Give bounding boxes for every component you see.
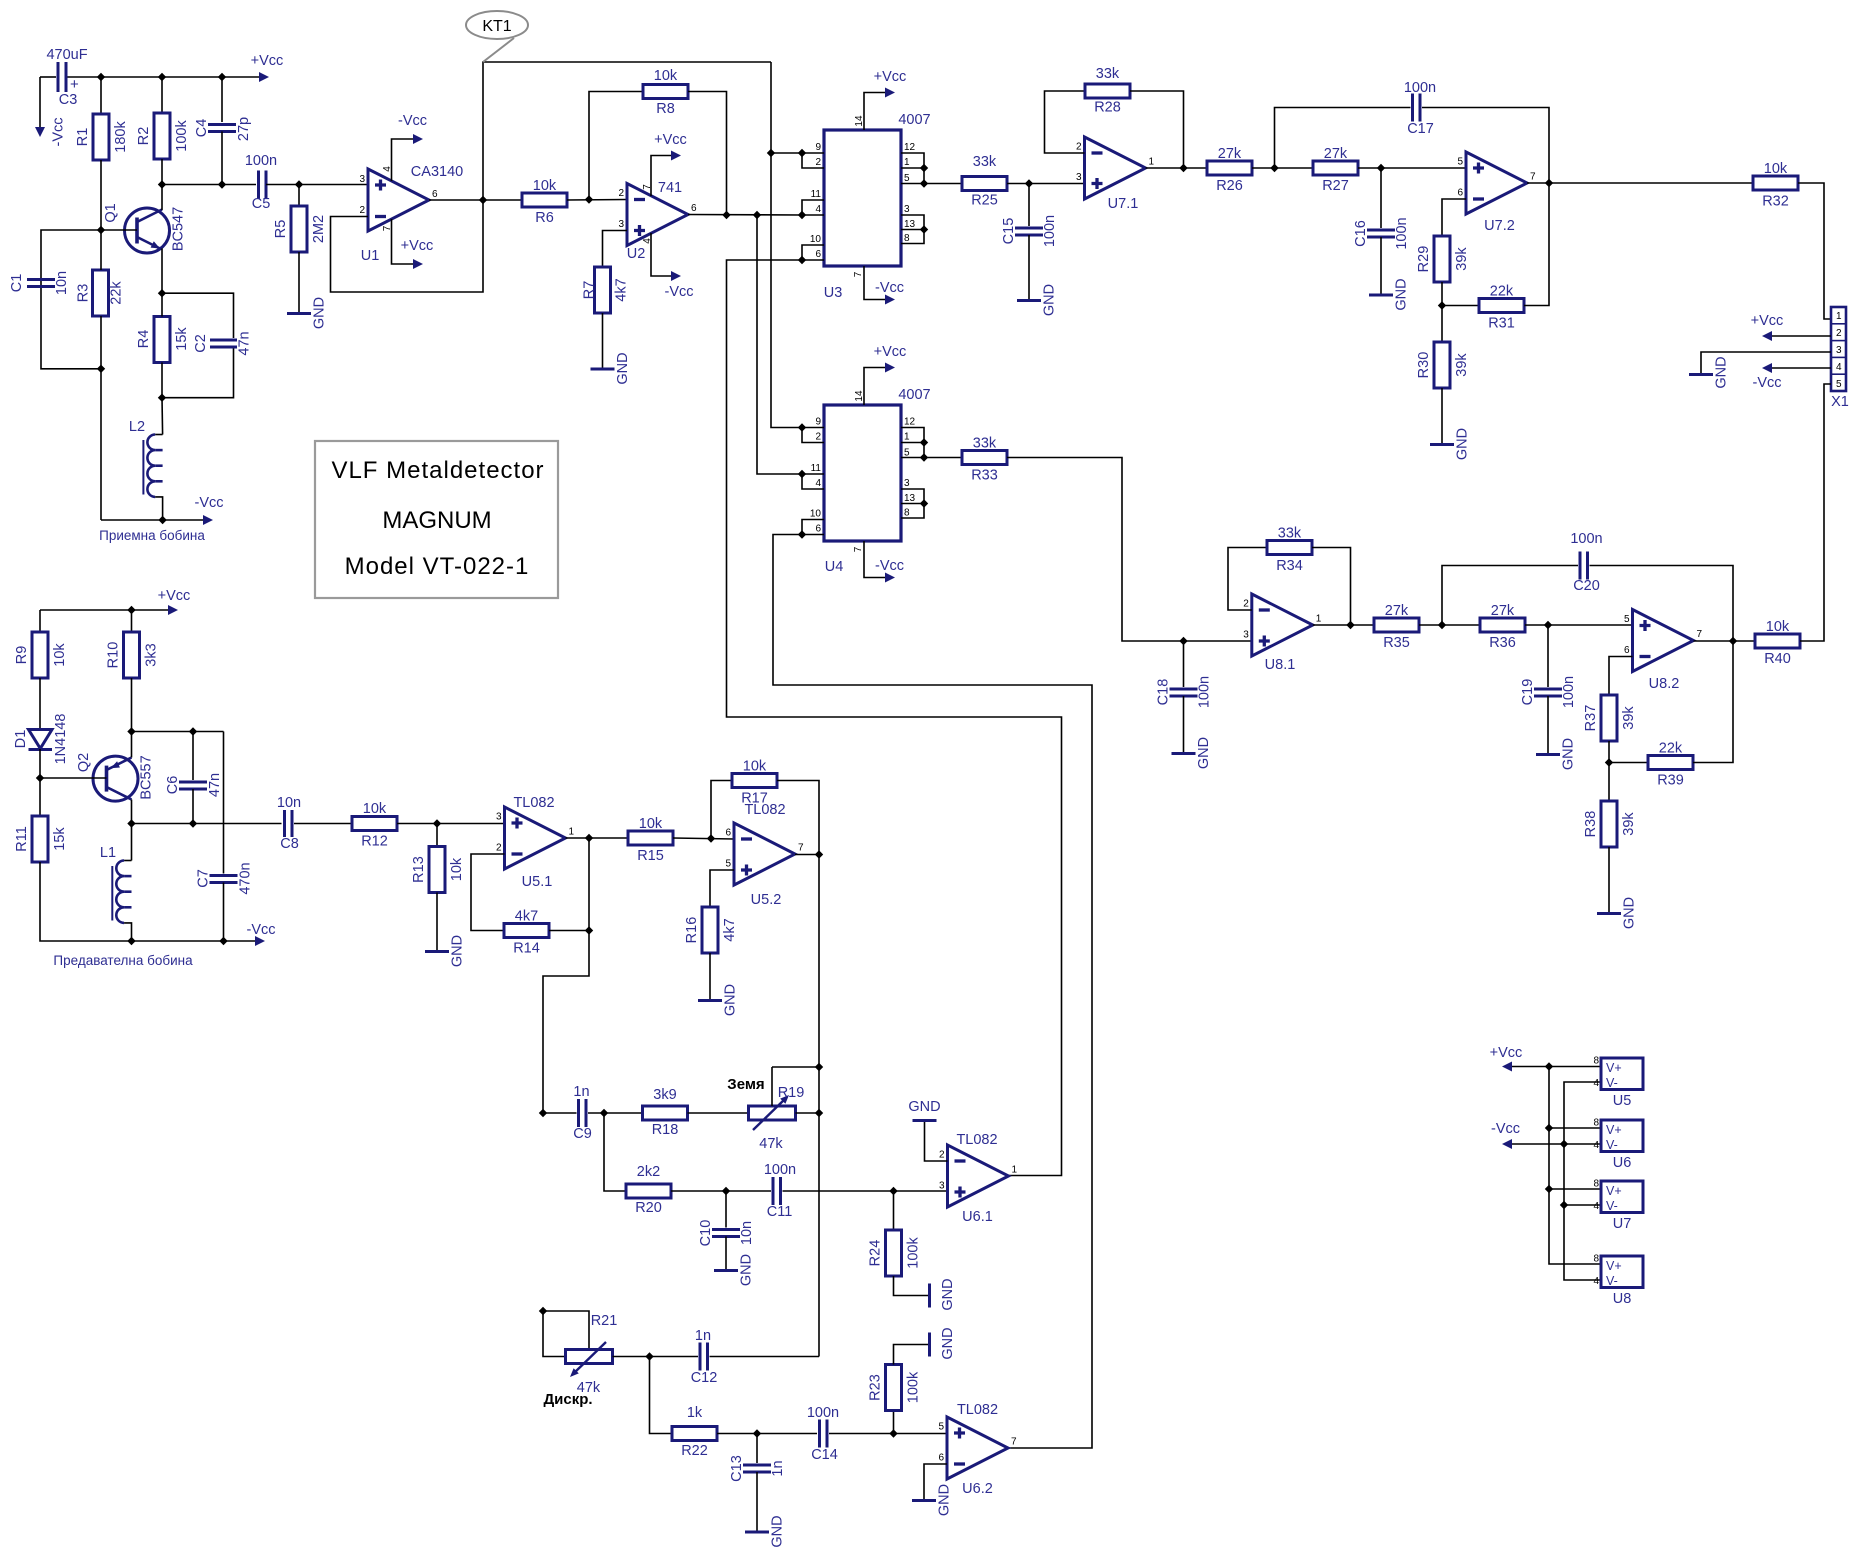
wire [864, 368, 885, 406]
wire U4 pin6 long route to U6.2 output [773, 535, 1092, 1449]
junction C9 right [600, 1109, 608, 1117]
svg-text:5: 5 [938, 1422, 944, 1433]
svg-text:741: 741 [658, 180, 682, 196]
wire [162, 347, 234, 398]
svg-text:2: 2 [939, 1150, 945, 1161]
wire [1590, 566, 1734, 642]
svg-text:1: 1 [1149, 157, 1155, 168]
svg-text:Приемна бобина: Приемна бобина [99, 528, 205, 543]
wire [100, 369, 102, 520]
junction base [97, 226, 105, 234]
svg-text:Предавателна бобина: Предавателна бобина [53, 953, 193, 968]
X1 pin2 +Vcc [1751, 313, 1831, 341]
resistor R25 [962, 154, 1007, 209]
svg-text:4: 4 [1593, 1276, 1599, 1287]
-Vcc arrow [203, 515, 213, 525]
wire [436, 893, 438, 952]
svg-text:10: 10 [810, 509, 822, 520]
junction [920, 225, 928, 233]
junction [218, 73, 226, 81]
junction [1545, 1062, 1553, 1070]
wire [1547, 625, 1549, 687]
svg-text:GND: GND [1196, 737, 1212, 769]
svg-text:R19: R19 [778, 1085, 805, 1101]
svg-text:1n: 1n [770, 1460, 786, 1476]
svg-text:5: 5 [1457, 157, 1463, 168]
wire Q1 emitter down [161, 249, 163, 294]
wire [901, 215, 924, 244]
capacitor C1 [9, 271, 70, 295]
svg-text:GND: GND [908, 1099, 940, 1115]
svg-text:U6.1: U6.1 [962, 1209, 993, 1225]
wire [1564, 1204, 1601, 1206]
wire [40, 777, 107, 779]
resistor R15 [628, 816, 673, 864]
wire [1442, 305, 1479, 307]
wire [901, 503, 924, 505]
wire [40, 862, 132, 941]
resistor R2 [136, 113, 190, 159]
junction [127, 937, 135, 945]
capacitor C13 [729, 1434, 786, 1533]
capacitor C7 [196, 732, 254, 942]
svg-text:R23: R23 [868, 1374, 884, 1401]
resistor R12 [352, 801, 397, 850]
svg-text:11: 11 [811, 463, 822, 474]
resistor R10 [106, 610, 160, 732]
wire C8 to R12 [294, 823, 352, 825]
svg-text:4: 4 [815, 204, 821, 215]
svg-text:4k7: 4k7 [515, 909, 538, 925]
svg-text:4: 4 [815, 478, 821, 489]
junction C19 [1544, 621, 1552, 629]
wire L2 column top [161, 398, 164, 435]
wire [924, 1464, 947, 1501]
svg-text:470n: 470n [238, 862, 254, 894]
junction [920, 453, 928, 461]
wire U2 pin4 -Vcc [651, 233, 671, 276]
svg-text:R16: R16 [684, 917, 700, 944]
svg-text:GND: GND [1455, 428, 1471, 460]
resistor R16 [684, 870, 738, 1001]
junction [1545, 1185, 1553, 1193]
wire R22 to C14 [717, 1433, 817, 1435]
wire R4 top/bottom [161, 293, 163, 316]
resistor R14 feedback [471, 854, 589, 957]
svg-text:+Vcc: +Vcc [158, 588, 191, 604]
resistor R28 feedback [1045, 66, 1184, 168]
wire [131, 678, 133, 732]
wire +Vcc power rail [1549, 1067, 1601, 1265]
svg-text:100n: 100n [1561, 676, 1577, 708]
ground R30 [1430, 428, 1471, 460]
svg-text:100n: 100n [1404, 80, 1436, 96]
svg-text:R14: R14 [513, 941, 540, 957]
svg-text:R36: R36 [1489, 635, 1516, 651]
svg-text:100n: 100n [1042, 215, 1058, 247]
wire top +Vcc rail [40, 76, 56, 78]
svg-text:U7.1: U7.1 [1108, 196, 1139, 212]
wire U4 pin5 to R33 [924, 457, 962, 459]
wire [39, 678, 41, 729]
wire [155, 434, 162, 436]
wire [1228, 548, 1267, 611]
svg-text:6: 6 [1457, 188, 1463, 199]
wire [1028, 184, 1030, 227]
resistor R4 [136, 317, 190, 363]
capacitor C15 [1001, 184, 1058, 301]
svg-text:3k3: 3k3 [144, 643, 160, 666]
wire [864, 93, 885, 131]
svg-text:1: 1 [1316, 614, 1322, 625]
svg-text:R35: R35 [1383, 635, 1410, 651]
svg-text:12: 12 [904, 417, 916, 428]
capacitor C3 [46, 47, 87, 108]
wire [893, 1191, 895, 1230]
wire [1442, 199, 1466, 236]
svg-text:R37: R37 [1583, 705, 1599, 732]
svg-text:6: 6 [815, 249, 821, 260]
wire [1380, 237, 1382, 295]
ground R13 [425, 935, 466, 967]
wire R35-R36 [1419, 624, 1480, 626]
wire [1693, 641, 1733, 763]
svg-text:2: 2 [1243, 599, 1249, 610]
svg-text:33k: 33k [1278, 526, 1302, 542]
junction C17 branch [1270, 164, 1278, 172]
svg-text:V-: V- [1606, 1274, 1618, 1288]
wire [298, 252, 300, 314]
U3 pins 10/6 bracket [798, 234, 824, 264]
wire [709, 953, 711, 1001]
U4 pins 10/6 bracket [798, 509, 824, 539]
power block U8 [1593, 1254, 1643, 1308]
U3 pins 12/1/5 bracket [901, 142, 928, 188]
svg-text:R8: R8 [656, 101, 675, 117]
wire R6 to U2 pin2 [567, 199, 627, 202]
svg-text:2: 2 [1836, 328, 1842, 339]
svg-text:2: 2 [618, 188, 624, 199]
svg-text:2: 2 [815, 157, 821, 168]
ground R16 [698, 984, 739, 1016]
junction [798, 149, 806, 157]
ground C19 [1536, 738, 1577, 770]
svg-text:U3: U3 [824, 285, 843, 301]
wire [162, 293, 234, 338]
transistor Q2 BC557 [40, 753, 155, 801]
wire R26-R27 [1252, 167, 1313, 169]
wire [192, 732, 194, 781]
junction [97, 365, 105, 373]
svg-text:GND: GND [739, 1254, 755, 1286]
resistor R32 [1753, 161, 1831, 319]
capacitor C18 [1156, 641, 1213, 754]
U4 pin14 +Vcc [854, 344, 906, 405]
wire R19 right [796, 1112, 820, 1114]
wire [192, 789, 194, 824]
wire [1608, 763, 1610, 802]
svg-text:R11: R11 [14, 826, 30, 852]
capacitor C4 [194, 117, 252, 141]
svg-text:R4: R4 [136, 330, 152, 349]
svg-text:C9: C9 [573, 1126, 592, 1142]
svg-text:R24: R24 [868, 1240, 884, 1267]
svg-text:R2: R2 [136, 127, 152, 146]
resistor R35 [1374, 603, 1419, 651]
svg-text:+Vcc: +Vcc [874, 344, 907, 360]
wire U2 pin7 +Vcc [651, 156, 671, 197]
resistor R30 [1416, 306, 1470, 445]
junction [189, 819, 197, 827]
svg-text:R29: R29 [1416, 246, 1432, 273]
inductor L1 [100, 824, 132, 942]
wire [543, 931, 589, 1114]
wire R27 to U7.2 pin5 [1358, 167, 1466, 169]
resistor R23 [868, 1345, 930, 1434]
wire [1422, 108, 1549, 184]
-Vcc arrow TX [255, 936, 265, 946]
svg-text:C16: C16 [1353, 220, 1369, 247]
junction R24 [889, 1187, 897, 1195]
U4 pin7 -Vcc [853, 541, 904, 583]
resistor R18 [643, 1087, 688, 1138]
junction [158, 73, 166, 81]
svg-text:7: 7 [1011, 1437, 1017, 1448]
svg-text:6: 6 [691, 203, 697, 214]
wire [155, 497, 162, 520]
svg-text:100k: 100k [906, 1371, 922, 1403]
X1 pin3 GND [1689, 352, 1831, 389]
junction [798, 530, 806, 538]
wires pin8 rows [1549, 1127, 1601, 1129]
svg-text:-Vcc: -Vcc [247, 922, 276, 938]
wire [223, 883, 225, 942]
power block U7 [1593, 1179, 1643, 1233]
svg-text:R1: R1 [75, 128, 91, 147]
svg-text:7: 7 [853, 546, 864, 552]
svg-text:CA3140: CA3140 [411, 164, 463, 180]
svg-text:+Vcc: +Vcc [251, 53, 284, 69]
svg-text:100n: 100n [245, 153, 277, 169]
capacitor C19 [1520, 625, 1577, 755]
svg-text:4: 4 [1593, 1078, 1599, 1089]
svg-text:C6: C6 [165, 776, 181, 795]
capacitor C20 feedback [1442, 531, 1733, 641]
junction [539, 1307, 547, 1315]
svg-text:C20: C20 [1573, 578, 1600, 594]
svg-text:GND: GND [1042, 284, 1058, 316]
svg-text:47k: 47k [759, 1136, 783, 1152]
svg-text:5: 5 [725, 859, 731, 870]
svg-text:470uF: 470uF [46, 47, 87, 63]
wire [1512, 1143, 1564, 1145]
junction [219, 937, 227, 945]
wire -Vcc bottom rail [101, 519, 203, 521]
svg-text:9: 9 [815, 417, 821, 428]
wire U1 feedback to pin2 [331, 200, 484, 292]
svg-text:10k: 10k [639, 816, 663, 832]
svg-text:C2: C2 [193, 334, 209, 353]
svg-text:1: 1 [904, 432, 910, 443]
svg-text:1: 1 [569, 827, 575, 838]
junction [158, 394, 166, 402]
wire [725, 1191, 727, 1228]
svg-text:10k: 10k [1764, 161, 1788, 177]
wire U3 pin9 row [771, 152, 802, 154]
wire U5.1 out down to C9 path [588, 838, 590, 931]
svg-text:C3: C3 [59, 92, 78, 108]
svg-text:GND: GND [1394, 278, 1410, 310]
svg-text:39k: 39k [1621, 812, 1637, 836]
svg-text:R6: R6 [535, 210, 554, 226]
svg-text:22k: 22k [1490, 284, 1514, 300]
svg-text:C17: C17 [1407, 121, 1434, 137]
junction emitter/R4 [158, 289, 166, 297]
wire R15 to U5.2 pin6 [673, 838, 734, 839]
wire [471, 854, 505, 931]
svg-text:27k: 27k [1385, 603, 1409, 619]
capacitor C5 [245, 153, 277, 212]
inductor L2 [129, 419, 163, 520]
svg-text:8: 8 [1593, 1179, 1599, 1190]
wire C4 bottom [221, 132, 223, 185]
svg-text:14: 14 [854, 115, 865, 127]
svg-text:4: 4 [1593, 1201, 1599, 1212]
wire [1028, 235, 1030, 301]
svg-text:GND: GND [615, 352, 631, 384]
junction [798, 470, 806, 478]
wire U3 pin6 long route to U6.1 output [727, 260, 1062, 1176]
svg-text:-Vcc: -Vcc [51, 118, 67, 147]
junction [920, 164, 928, 172]
wire [864, 541, 885, 578]
wire [1275, 108, 1411, 169]
wire [1608, 741, 1610, 763]
svg-text:1n: 1n [573, 1084, 589, 1100]
svg-text:R20: R20 [635, 1200, 662, 1216]
ground C16 [1369, 278, 1410, 310]
svg-text:C12: C12 [691, 1370, 718, 1386]
svg-text:R27: R27 [1322, 178, 1349, 194]
svg-text:10: 10 [810, 234, 822, 245]
svg-text:GND: GND [450, 935, 466, 967]
svg-text:V-: V- [1606, 1076, 1618, 1090]
svg-text:U2: U2 [627, 246, 646, 262]
svg-text:180k: 180k [113, 121, 129, 153]
wire [777, 781, 819, 855]
svg-text:10k: 10k [654, 68, 678, 84]
op-amp U1 CA3140 [359, 164, 463, 264]
svg-text:R30: R30 [1416, 352, 1432, 379]
svg-text:V+: V+ [1606, 1123, 1622, 1137]
svg-text:4k7: 4k7 [614, 278, 630, 301]
svg-text:9: 9 [815, 142, 821, 153]
junction C9 left [539, 1109, 547, 1117]
capacitor C16 [1353, 168, 1410, 295]
wire [67, 76, 259, 78]
wire [1441, 306, 1443, 343]
U3 pins 11/4 bracket [798, 189, 824, 219]
wire [1608, 847, 1610, 914]
junction U5.1 out [585, 834, 593, 842]
wire [1512, 1066, 1601, 1068]
wire [1183, 696, 1185, 754]
resistor R33 [962, 436, 1007, 484]
svg-text:4k7: 4k7 [722, 918, 738, 941]
wire -Vcc power rail [1564, 1082, 1601, 1280]
wire C5 row from R2 [162, 184, 256, 186]
wire R1 bottom to base row [100, 160, 102, 230]
svg-text:VLF Metaldetector: VLF Metaldetector [331, 457, 544, 484]
svg-text:10k: 10k [52, 643, 68, 667]
wire [756, 1472, 758, 1532]
capacitor C12 [691, 1328, 819, 1386]
svg-text:3: 3 [618, 219, 624, 230]
junction [218, 180, 226, 188]
potentiometer R19 (Земя) [727, 1067, 819, 1152]
svg-text:27k: 27k [1324, 146, 1348, 162]
capacitor C2 branch [162, 293, 253, 398]
ground R5 [287, 297, 328, 329]
wire C11 to U6.1 pin3 [783, 1190, 948, 1192]
svg-text:10n: 10n [277, 795, 301, 811]
svg-text:R26: R26 [1216, 178, 1243, 194]
svg-text:R5: R5 [273, 220, 289, 239]
junction R19 wiper [815, 1063, 823, 1071]
wire [1800, 384, 1831, 641]
wire R36 to U8.2 pin5 [1525, 624, 1633, 626]
junction [920, 438, 928, 446]
svg-text:R13: R13 [411, 856, 427, 883]
junction top row [127, 727, 135, 735]
wire [710, 1356, 820, 1358]
svg-text:GND: GND [940, 1278, 956, 1310]
resistor R8 feedback [589, 68, 727, 215]
wire [771, 153, 802, 428]
wire R21 to C12 [613, 1356, 699, 1358]
ground R7 [591, 352, 632, 384]
junction R8 right [722, 211, 730, 219]
junction R17 left [707, 834, 715, 842]
wire R2 bottom to C5 row [161, 159, 163, 185]
wire [543, 1311, 589, 1350]
svg-text:GND: GND [1622, 897, 1638, 929]
wire [588, 1112, 643, 1114]
wire [543, 1311, 566, 1357]
op-amp U5.2 [725, 802, 804, 908]
svg-text:R15: R15 [637, 848, 664, 864]
wire +Vcc rail TX [40, 609, 168, 611]
svg-text:+: + [70, 76, 79, 93]
wire [39, 610, 41, 632]
wire U5.2 out down [818, 855, 820, 1357]
wire [802, 153, 824, 168]
svg-text:8: 8 [1593, 1254, 1599, 1265]
svg-text:U7: U7 [1613, 1216, 1632, 1232]
svg-text:15k: 15k [174, 327, 190, 351]
resistor R37 [1583, 657, 1637, 763]
junction R13 [433, 819, 441, 827]
svg-text:R39: R39 [1657, 773, 1684, 789]
junction [158, 180, 166, 188]
ground R24 (rotated) [930, 1278, 957, 1310]
svg-text:R7: R7 [582, 281, 598, 300]
wire R20 to C11 [671, 1190, 771, 1192]
wire [543, 1112, 577, 1114]
svg-text:100n: 100n [1197, 676, 1213, 708]
svg-text:3k9: 3k9 [653, 1087, 676, 1103]
wire C3 left down to -Vcc [39, 77, 41, 127]
